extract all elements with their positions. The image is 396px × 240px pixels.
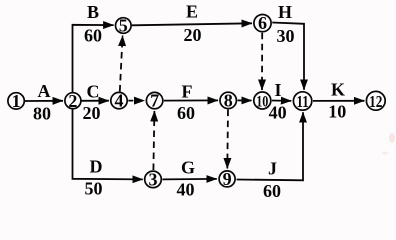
node 5 [116, 16, 132, 36]
svg-text:10: 10 [328, 102, 346, 122]
svg-text:30: 30 [277, 26, 295, 46]
svg-text:11: 11 [297, 93, 309, 111]
svg-text:4: 4 [115, 91, 124, 111]
svg-text:60: 60 [84, 26, 102, 46]
node 1 [8, 91, 24, 111]
svg-text:B: B [87, 2, 99, 22]
activity A arrow 1->2 [25, 81, 63, 124]
node 7 [146, 91, 162, 111]
svg-text:I: I [274, 80, 281, 100]
dummy arrow 4->5 dashed [120, 36, 123, 92]
svg-text:A: A [38, 81, 51, 101]
svg-text:40: 40 [269, 103, 287, 123]
svg-text:20: 20 [83, 103, 101, 123]
node 4 [111, 91, 127, 111]
activity I arrow 10->11 [269, 80, 292, 123]
svg-text:5: 5 [119, 16, 128, 36]
svg-text:K: K [331, 80, 345, 100]
svg-text:C: C [87, 82, 100, 102]
activity D arrow 2->3 [73, 110, 143, 199]
activity H arrow 6->11 [272, 2, 304, 90]
svg-text:G: G [181, 158, 195, 178]
activity B arrow 2->5 [73, 2, 114, 92]
svg-text:8: 8 [224, 91, 233, 111]
dummy arrow 8->10 dashed [238, 99, 252, 101]
svg-text:60: 60 [263, 181, 281, 201]
svg-text:D: D [90, 157, 103, 177]
svg-text:50: 50 [85, 179, 103, 199]
svg-text:10: 10 [256, 93, 268, 111]
svg-text:E: E [186, 2, 198, 22]
node 8 [220, 91, 236, 111]
dummy arrow 6->10 dashed [261, 33, 263, 90]
node 2 [65, 91, 81, 111]
svg-text:2: 2 [68, 91, 77, 111]
node 6 [254, 13, 271, 33]
svg-text:3: 3 [149, 170, 158, 190]
dummy arrow 3->7 dashed [153, 111, 154, 170]
svg-text:1: 1 [12, 91, 21, 111]
node 9 [219, 169, 235, 189]
activity F arrow 7->8 [164, 82, 218, 124]
activity K arrow 11->12 [313, 80, 364, 122]
scan artifact smudges right edge [382, 133, 395, 155]
activity J arrow 9->11 [237, 112, 303, 201]
svg-text:12: 12 [369, 92, 382, 111]
svg-text:20: 20 [184, 25, 202, 45]
activity G arrow 3->9 [162, 158, 216, 200]
node 12 [366, 91, 385, 111]
svg-text:9: 9 [223, 169, 232, 189]
node 10 [254, 92, 271, 111]
node 3 [145, 170, 162, 190]
node 11 [293, 92, 311, 112]
svg-text:J: J [268, 159, 277, 179]
svg-text:F: F [182, 82, 193, 102]
svg-text:6: 6 [258, 13, 267, 33]
svg-text:7: 7 [150, 91, 159, 111]
svg-text:40: 40 [177, 180, 195, 200]
dummy arrow 4->7 dashed [128, 100, 144, 102]
svg-text:60: 60 [177, 103, 195, 123]
activity C arrow 2->4 [82, 82, 109, 124]
activity E arrow 5->6 [132, 2, 252, 46]
svg-text:H: H [278, 2, 292, 22]
dummy arrow 8->9 dashed [226, 110, 229, 169]
svg-text:80: 80 [33, 104, 51, 124]
